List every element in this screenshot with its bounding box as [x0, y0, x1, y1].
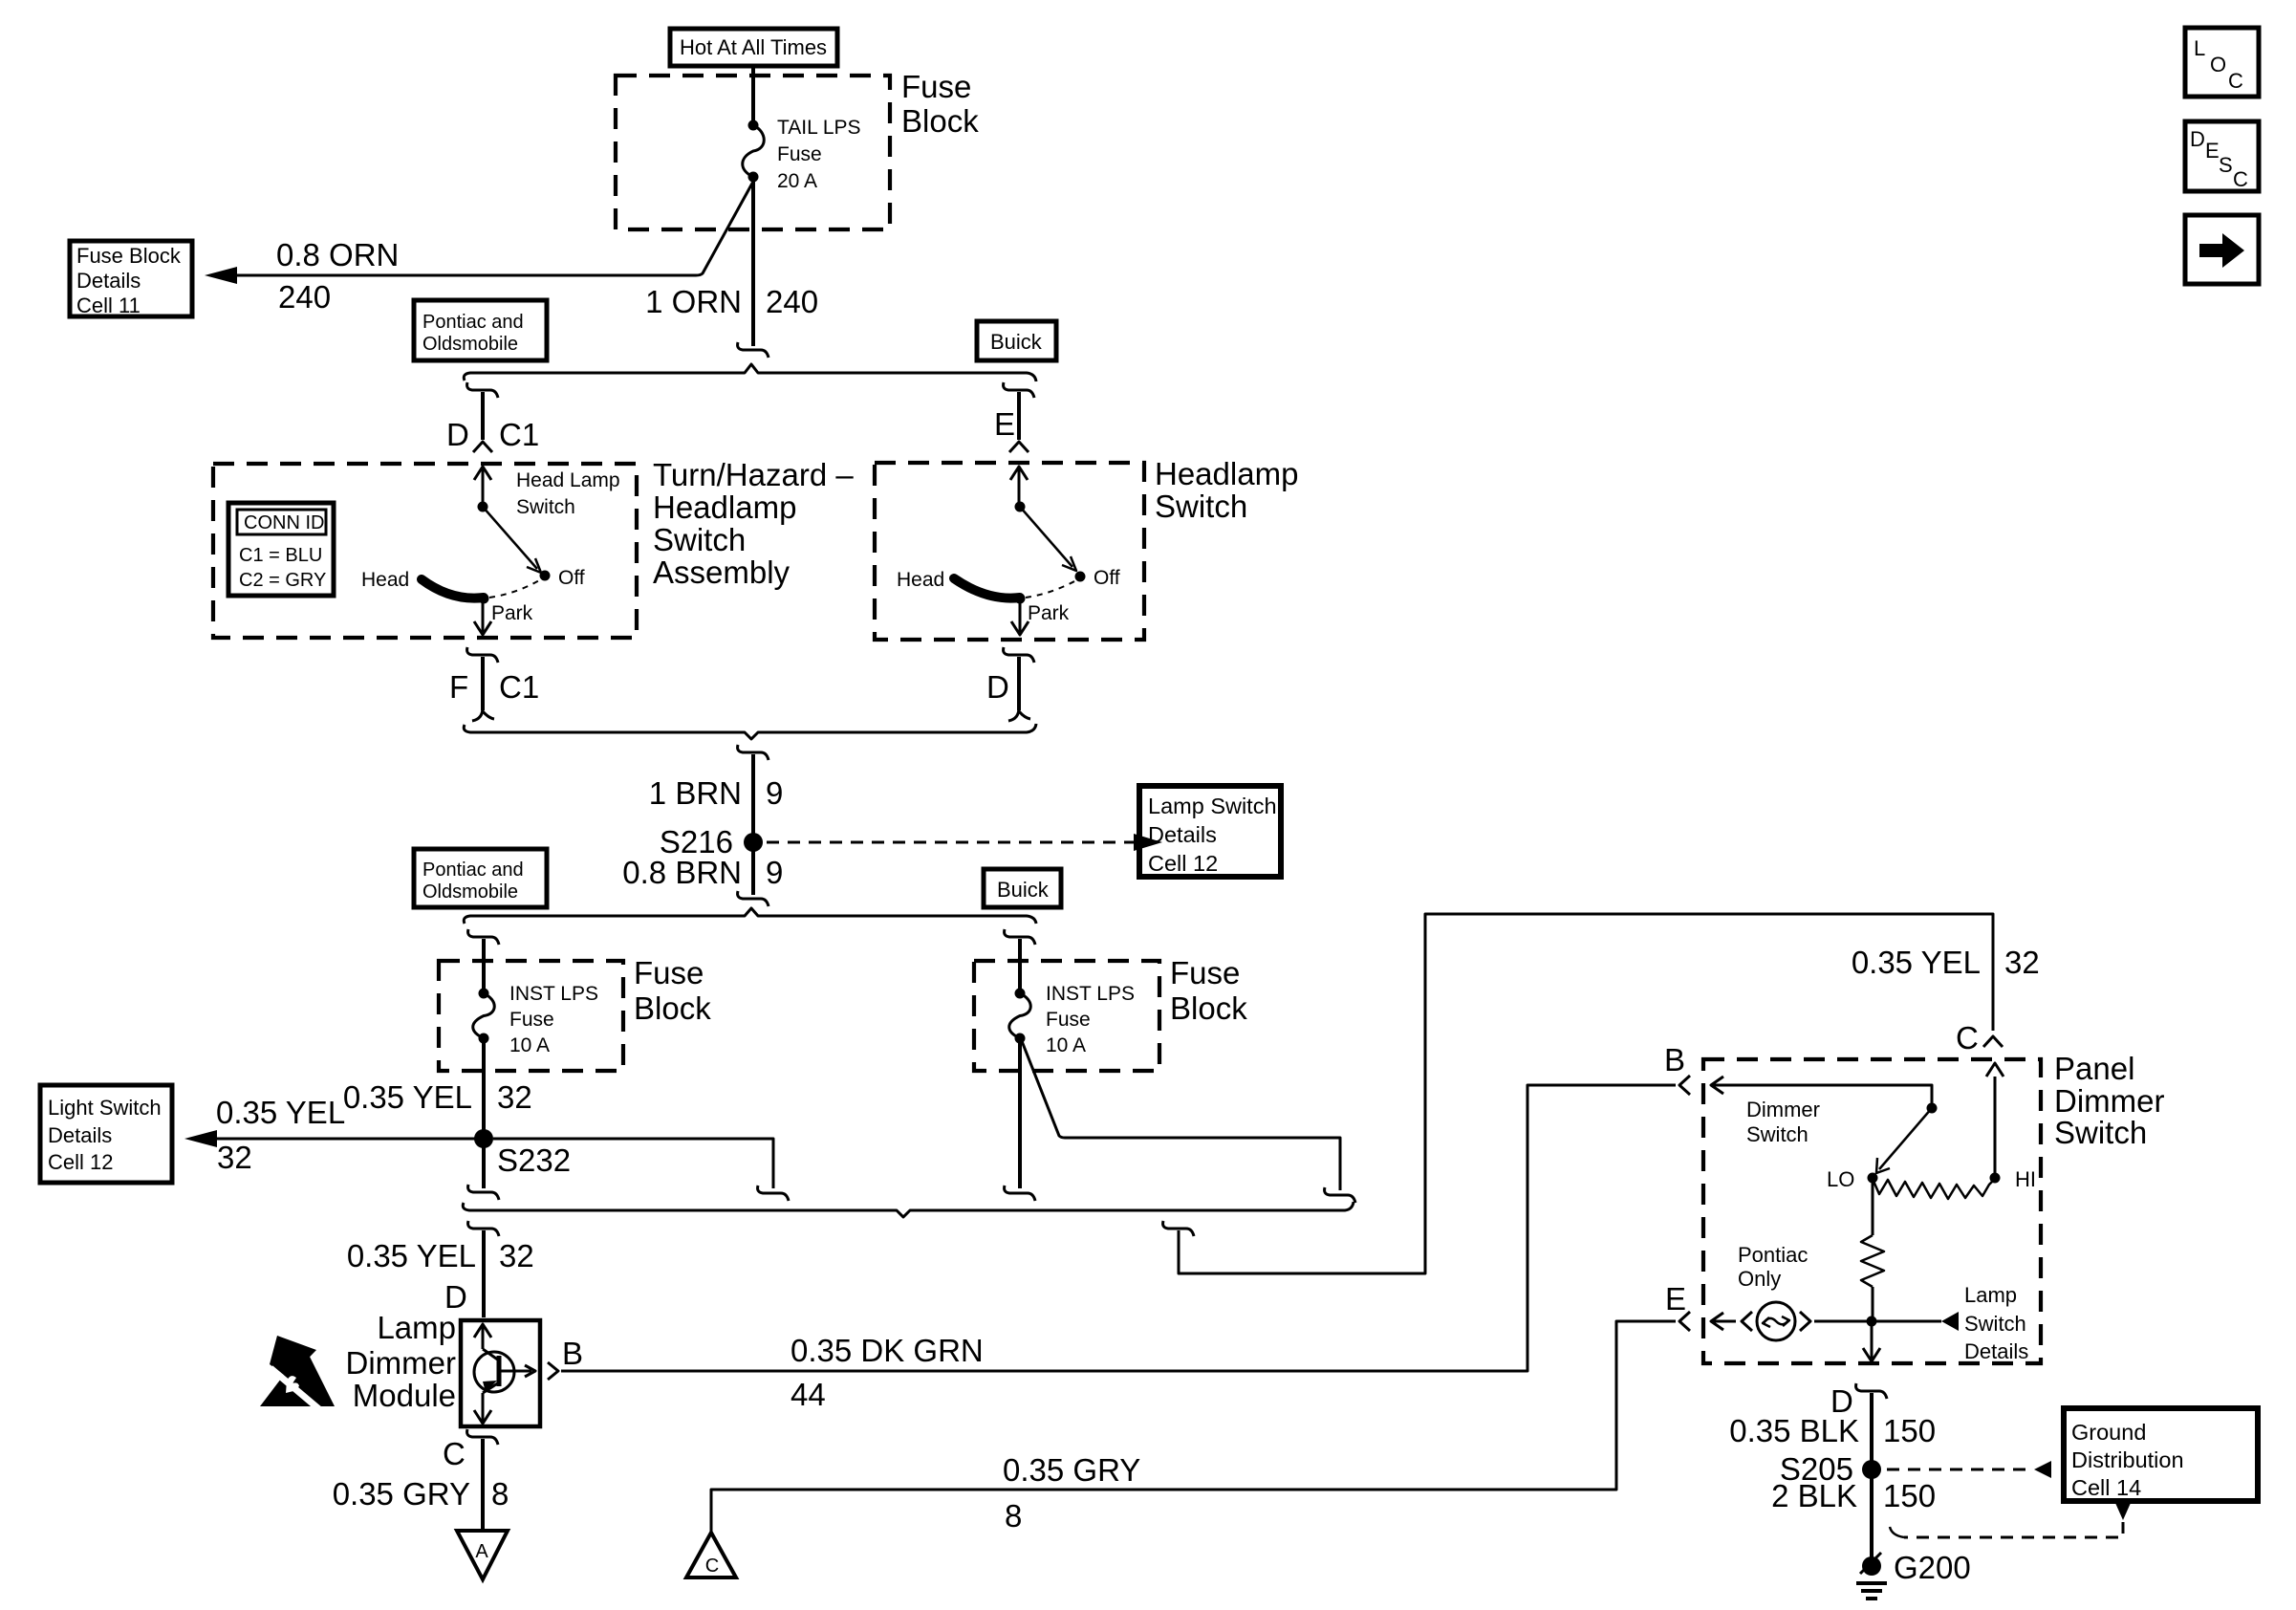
- svg-text:Cell 12: Cell 12: [48, 1150, 113, 1174]
- svg-text:0.8 ORN: 0.8 ORN: [276, 237, 399, 272]
- label 0.35 BLK / 150: [1729, 1413, 1936, 1448]
- connector D C1 female: [467, 382, 498, 398]
- svg-text:Switch: Switch: [653, 522, 746, 557]
- HI feed arrow up: [1994, 1077, 1997, 1178]
- svg-text:0.35 GRY: 0.35 GRY: [333, 1476, 470, 1512]
- svg-text:8: 8: [1005, 1498, 1022, 1534]
- svg-text:C: C: [2228, 69, 2243, 93]
- ground G200: [1856, 1553, 1887, 1599]
- svg-text:Details: Details: [1964, 1339, 2028, 1363]
- wire E to ground ref C: [711, 1321, 1676, 1532]
- switch 1 output arrow: [482, 602, 485, 632]
- label 0.35 GRY / 8 module: [333, 1476, 509, 1512]
- svg-text:Block: Block: [634, 990, 711, 1026]
- svg-text:Assembly: Assembly: [653, 555, 791, 590]
- svg-text:32: 32: [499, 1238, 534, 1273]
- label 1 ORN / 240: [645, 284, 818, 319]
- switch 1 pivot: [478, 502, 488, 512]
- label F / C1: [449, 669, 539, 705]
- svg-text:Hot At All Times: Hot At All Times: [680, 35, 827, 59]
- lamp connector break right: [1800, 1312, 1810, 1331]
- wire module C down: [481, 1439, 485, 1529]
- svg-text:32: 32: [217, 1140, 252, 1175]
- wire S232 right branch: [493, 1139, 773, 1188]
- connector E male pin panel: [1679, 1312, 1690, 1331]
- label 0.8 BRN / 9: [622, 855, 783, 890]
- connector D panel output: [1856, 1383, 1887, 1399]
- harness bus 3: [464, 908, 1036, 924]
- resistor R2 vertical: [1861, 1235, 1884, 1287]
- connector D right end hook: [1008, 707, 1030, 721]
- svg-text:Panel: Panel: [2054, 1051, 2134, 1086]
- Pontiac and Oldsmobile box 1: [414, 300, 547, 360]
- switch 2 Off contact: [1075, 572, 1086, 582]
- arrowhead at panel box bottom: [1863, 1348, 1880, 1361]
- wire 0.8 ORN to fuse block details: [235, 180, 754, 275]
- label Fuse Block right: [1170, 955, 1247, 1026]
- wire to module D: [482, 1230, 486, 1317]
- connector F C1 female: [467, 647, 498, 663]
- module C arrowhead: [474, 1410, 491, 1424]
- Lamp Dimmer Module box: [461, 1320, 540, 1426]
- arrowhead to Fuse Block Details: [205, 267, 237, 284]
- wire into fuse 3: [1018, 939, 1022, 990]
- svg-text:0.35 BLK: 0.35 BLK: [1729, 1413, 1859, 1448]
- dimmer switch pivot: [1927, 1103, 1938, 1114]
- switch 2 Park contact: [1015, 594, 1026, 604]
- harness bus 1: [464, 364, 1036, 381]
- label Dimmer Switch: [1746, 1098, 1820, 1146]
- connector fuse block 1 output: [738, 342, 769, 358]
- connector fuse2 output end: [468, 1185, 499, 1200]
- wire into fuse 2: [482, 939, 486, 990]
- svg-text:Ground: Ground: [2071, 1420, 2146, 1445]
- label Lamp Switch Details: [1964, 1283, 2028, 1363]
- arrowhead to Lamp Switch Details: [1941, 1312, 1959, 1331]
- svg-text:L: L: [2194, 36, 2205, 60]
- connector into fuse block 3: [1005, 929, 1035, 945]
- svg-text:Headlamp: Headlamp: [653, 490, 796, 525]
- svg-text:C: C: [443, 1436, 466, 1471]
- connector C male pin: [1983, 1036, 2003, 1047]
- LO contact: [1868, 1173, 1878, 1184]
- harness bus 2: [464, 724, 1036, 739]
- dashed arrow S216 to Lamp Switch Details: [767, 841, 1134, 844]
- module output lead C: [482, 1393, 485, 1422]
- svg-text:0.8 BRN: 0.8 BRN: [622, 855, 742, 890]
- switch 2 blade: [1020, 507, 1072, 567]
- svg-text:Head: Head: [361, 569, 409, 591]
- svg-text:Buick: Buick: [997, 878, 1050, 902]
- connector S232 branch end: [758, 1186, 789, 1201]
- connector E female: [1004, 382, 1034, 398]
- svg-text:Cell 12: Cell 12: [1148, 851, 1218, 876]
- connector D C1 male pin: [473, 442, 492, 452]
- svg-text:10 A: 10 A: [509, 1034, 550, 1056]
- connector below S216: [738, 891, 769, 906]
- svg-text:Fuse Block: Fuse Block: [76, 244, 182, 268]
- label Turn/Hazard-Headlamp Switch Assembly: [653, 457, 854, 590]
- connector fuse3 branch end: [1325, 1187, 1355, 1203]
- connector E male pin: [1009, 442, 1029, 452]
- arrowhead E inside: [1711, 1313, 1723, 1330]
- DESC legend box: [2185, 121, 2259, 191]
- Panel Dimmer Switch dashed box: [1703, 1059, 2041, 1363]
- label Pontiac Only: [1738, 1243, 1808, 1291]
- svg-text:Details: Details: [1148, 822, 1217, 847]
- label INST LPS Fuse 10 A right: [1046, 983, 1135, 1056]
- svg-text:F: F: [449, 669, 468, 705]
- svg-text:Headlamp: Headlamp: [1155, 456, 1298, 491]
- svg-text:D: D: [2190, 127, 2205, 151]
- svg-text:C1: C1: [499, 669, 539, 705]
- svg-text:G200: G200: [1894, 1550, 1971, 1585]
- label Lamp Dimmer Module: [346, 1310, 456, 1413]
- Light Switch Details Cell 12 box: [40, 1085, 172, 1183]
- svg-text:C: C: [1956, 1020, 1979, 1055]
- svg-text:E: E: [2205, 139, 2220, 163]
- svg-text:CONN ID: CONN ID: [244, 512, 324, 533]
- label 0.35 GRY / 8 right: [1003, 1452, 1140, 1534]
- connector above S216: [738, 745, 769, 760]
- E inside line with arrow: [1711, 1320, 1736, 1323]
- arrowhead out of switch 1: [474, 621, 491, 635]
- connector D right wire: [1017, 657, 1021, 710]
- arrow legend box: [2185, 215, 2259, 284]
- svg-text:B: B: [562, 1336, 583, 1371]
- label Headlamp Switch: [1155, 456, 1298, 524]
- connector module C output: [467, 1429, 498, 1445]
- svg-text:D: D: [986, 669, 1009, 705]
- arrowhead into switch 1: [474, 467, 491, 480]
- Fuse Block Details Cell 11 box: [70, 241, 192, 317]
- svg-text:B: B: [1664, 1042, 1685, 1077]
- switch 2 pivot: [1015, 502, 1026, 512]
- head lamp switch 1 input arrow: [482, 468, 485, 504]
- arrowhead out of switch 2: [1011, 621, 1029, 635]
- svg-text:Fuse: Fuse: [777, 143, 822, 165]
- svg-text:Distribution: Distribution: [2071, 1447, 2184, 1472]
- svg-text:Park: Park: [491, 602, 533, 624]
- svg-text:Module: Module: [353, 1378, 456, 1413]
- CONN ID table: [228, 503, 334, 596]
- svg-text:LO: LO: [1827, 1167, 1854, 1191]
- fuse block 2 dashed box: [439, 961, 623, 1071]
- ground ref triangle A: [457, 1531, 508, 1579]
- svg-text:TAIL LPS: TAIL LPS: [777, 117, 861, 139]
- svg-text:Details: Details: [48, 1123, 112, 1147]
- arrowhead B inside: [1711, 1077, 1723, 1094]
- fuse block 3 dashed box: [974, 961, 1159, 1071]
- svg-text:9: 9: [766, 855, 783, 890]
- transistor Q1: [474, 1349, 535, 1393]
- svg-text:Pontiac and: Pontiac and: [422, 312, 524, 333]
- svg-text:Switch: Switch: [1155, 489, 1247, 524]
- svg-text:0.35 YEL: 0.35 YEL: [1852, 945, 1981, 980]
- dashed arrow S205 to Ground Distribution: [1887, 1469, 2032, 1471]
- svg-text:0.35 YEL: 0.35 YEL: [343, 1079, 472, 1115]
- label 0.35 DK GRN / 44: [791, 1333, 984, 1412]
- svg-text:E: E: [994, 406, 1015, 442]
- label 0.8 ORN / 240: [276, 237, 399, 315]
- svg-text:O: O: [2210, 53, 2226, 76]
- harness bus 4: [463, 1202, 1354, 1217]
- svg-text:S232: S232: [497, 1142, 571, 1178]
- splice S205: [1862, 1460, 1881, 1479]
- svg-text:C1: C1: [499, 417, 539, 452]
- svg-text:D: D: [446, 417, 469, 452]
- svg-text:Switch: Switch: [2054, 1115, 2147, 1150]
- connector F C1 wire: [481, 657, 485, 710]
- Turn/Hazard-Headlamp Switch Assembly dashed box: [213, 464, 637, 638]
- svg-text:Head: Head: [897, 569, 944, 591]
- svg-text:240: 240: [766, 284, 818, 319]
- HI contact: [1990, 1173, 2001, 1184]
- svg-text:A: A: [475, 1541, 488, 1562]
- svg-text:Light Switch: Light Switch: [48, 1096, 162, 1120]
- junction dot: [1867, 1316, 1877, 1327]
- connector D C1 wire: [481, 392, 485, 440]
- fuse block 1 dashed box: [616, 76, 890, 229]
- Lamp Switch Details Cell 12 box: [1139, 786, 1281, 877]
- svg-text:Switch: Switch: [1746, 1122, 1809, 1146]
- wire fuse 2 to S232: [482, 1038, 486, 1188]
- connector B male pin: [1679, 1076, 1690, 1095]
- svg-text:Fuse: Fuse: [1046, 1009, 1091, 1031]
- switch 2 output arrow: [1019, 602, 1022, 632]
- svg-text:Switch: Switch: [516, 496, 575, 518]
- connector F C1 end hook: [472, 707, 494, 721]
- B inside line with arrow: [1711, 1085, 1932, 1103]
- svg-text:Park: Park: [1028, 602, 1070, 624]
- svg-text:10 A: 10 A: [1046, 1034, 1086, 1056]
- Headlamp Switch dashed box: [875, 463, 1144, 640]
- wire arrow to Light Switch Details: [217, 1138, 476, 1141]
- switch 2 dashed arc park-off: [1026, 580, 1076, 598]
- svg-text:C: C: [2233, 167, 2248, 191]
- labels Head Lamp Switch: [516, 469, 620, 518]
- wire 0.35 DK GRN: [561, 1085, 1676, 1371]
- Buick box 2: [984, 869, 1061, 907]
- junction down arrow: [1871, 1326, 1874, 1359]
- svg-text:Block: Block: [1170, 990, 1247, 1026]
- switch 1 wiper thick arc: [422, 579, 484, 598]
- LOC legend box: [2185, 28, 2259, 97]
- wire LO down: [1872, 1183, 1874, 1235]
- label 0.35 YEL / 32 module: [347, 1238, 534, 1273]
- label Fuse Block (top): [901, 69, 979, 139]
- svg-text:Details: Details: [76, 269, 141, 293]
- svg-text:C: C: [705, 1556, 719, 1577]
- switch 1 dashed arc park-off: [489, 579, 541, 598]
- svg-text:Only: Only: [1738, 1267, 1781, 1291]
- svg-text:Off: Off: [1094, 567, 1120, 589]
- label 0.35 YEL / 32 panel: [1852, 945, 2040, 980]
- svg-text:0.35 GRY: 0.35 GRY: [1003, 1452, 1140, 1488]
- head lamp switch 2 input arrow: [1018, 468, 1021, 504]
- label Panel Dimmer Switch: [2054, 1051, 2164, 1150]
- connector D right female: [1004, 647, 1034, 663]
- connector into fuse block 2: [468, 929, 499, 945]
- svg-text:150: 150: [1883, 1478, 1936, 1513]
- dimmer switch blade: [1879, 1108, 1932, 1169]
- svg-text:1 ORN: 1 ORN: [645, 284, 742, 319]
- svg-text:Lamp Switch: Lamp Switch: [1148, 794, 1277, 818]
- switch 2 wiper thick arc: [954, 578, 1020, 598]
- wire hot-to-fuse: [751, 66, 755, 122]
- svg-text:0.35 YEL: 0.35 YEL: [347, 1238, 476, 1273]
- svg-text:Turn/Hazard –: Turn/Hazard –: [653, 457, 854, 492]
- svg-text:E: E: [1665, 1281, 1686, 1316]
- Pontiac and Oldsmobile box 2: [414, 849, 547, 907]
- connector E wire: [1017, 392, 1021, 440]
- svg-text:Head Lamp: Head Lamp: [516, 469, 620, 491]
- ESD symbol: [260, 1336, 335, 1409]
- label D / C1: [446, 417, 539, 452]
- svg-text:Fuse: Fuse: [901, 69, 971, 104]
- svg-text:44: 44: [791, 1377, 826, 1412]
- Buick box 1: [977, 321, 1056, 360]
- wire fuse 3 diagonal branch: [1022, 1041, 1340, 1190]
- wire lamp to junction: [1814, 1320, 1941, 1323]
- lamp connector break left: [1742, 1312, 1752, 1331]
- wire 1 BRN: [751, 754, 755, 835]
- wire fuse output down: [751, 177, 755, 346]
- svg-text:9: 9: [766, 775, 783, 811]
- svg-text:Fuse: Fuse: [509, 1009, 554, 1031]
- label TAIL LPS Fuse 20 A: [777, 117, 861, 192]
- splice S216: [744, 833, 763, 852]
- ground ref triangle C: [686, 1533, 736, 1577]
- wire bus4 to panel dimmer C: [1179, 914, 1993, 1273]
- svg-text:Cell 14: Cell 14: [2071, 1475, 2141, 1500]
- module D arrowhead: [474, 1324, 491, 1338]
- svg-text:150: 150: [1883, 1413, 1936, 1448]
- wire R2 to junction: [1872, 1287, 1874, 1321]
- svg-text:2 BLK: 2 BLK: [1771, 1478, 1857, 1513]
- connector bus4 to panel branch: [1163, 1221, 1194, 1236]
- splice S232: [474, 1129, 493, 1148]
- svg-text:Oldsmobile: Oldsmobile: [422, 881, 518, 903]
- svg-text:HI: HI: [2015, 1167, 2036, 1191]
- svg-text:Off: Off: [558, 567, 585, 589]
- svg-text:INST LPS: INST LPS: [1046, 983, 1135, 1005]
- svg-text:32: 32: [2004, 945, 2040, 980]
- svg-text:Fuse: Fuse: [634, 955, 704, 990]
- svg-text:INST LPS: INST LPS: [509, 983, 598, 1005]
- svg-text:8: 8: [491, 1476, 509, 1512]
- dashed ground link: [1890, 1503, 2131, 1537]
- Ground Distribution Cell 14 box: [2064, 1408, 2258, 1501]
- svg-text:C1 = BLU: C1 = BLU: [239, 545, 322, 566]
- arrowhead into switch 2: [1010, 467, 1028, 480]
- wire fuse 3 output straight: [1018, 1038, 1022, 1188]
- svg-text:Fuse: Fuse: [1170, 955, 1240, 990]
- fuse INST LPS 10A left: [479, 989, 489, 999]
- wire 0.8 BRN: [751, 850, 755, 895]
- svg-text:Cell 11: Cell 11: [76, 294, 141, 317]
- module input lead: [482, 1326, 485, 1349]
- arrowhead up at box top: [1986, 1063, 2004, 1077]
- Hot At All Times box: [670, 29, 837, 66]
- label 0.35 YEL / 32 arrow: [216, 1095, 345, 1175]
- svg-text:C2 = GRY: C2 = GRY: [239, 570, 326, 591]
- switch 1 blade: [483, 507, 537, 569]
- svg-text:S: S: [2219, 153, 2233, 177]
- svg-text:Lamp: Lamp: [1964, 1283, 2017, 1307]
- svg-text:Block: Block: [901, 103, 979, 139]
- svg-text:Switch: Switch: [1964, 1312, 2026, 1336]
- svg-text:Dimmer: Dimmer: [346, 1345, 456, 1381]
- rheostat R1: [1873, 1179, 1995, 1199]
- label INST LPS Fuse 10 A left: [509, 983, 598, 1056]
- module B male pin: [548, 1362, 558, 1380]
- switch 1 Off contact: [540, 571, 551, 581]
- svg-text:Pontiac and: Pontiac and: [422, 859, 524, 881]
- svg-text:0.35 DK GRN: 0.35 DK GRN: [791, 1333, 984, 1368]
- connector fuse3 output end: [1005, 1186, 1035, 1201]
- svg-text:240: 240: [278, 279, 331, 315]
- switch 1 Park contact: [479, 594, 489, 604]
- svg-text:Pontiac: Pontiac: [1738, 1243, 1808, 1267]
- svg-text:1 BRN: 1 BRN: [649, 775, 742, 811]
- label Fuse Block left: [634, 955, 711, 1026]
- svg-text:Dimmer: Dimmer: [2054, 1083, 2164, 1119]
- svg-text:0.35 YEL: 0.35 YEL: [216, 1095, 345, 1130]
- svg-text:Dimmer: Dimmer: [1746, 1098, 1820, 1121]
- label 0.35 YEL / 32 upper: [343, 1079, 532, 1115]
- svg-text:32: 32: [497, 1079, 532, 1115]
- svg-text:Buick: Buick: [990, 330, 1043, 354]
- connector module D input: [468, 1221, 499, 1236]
- label 1 BRN / 9: [649, 775, 784, 811]
- svg-text:20 A: 20 A: [777, 170, 817, 192]
- fuse TAIL LPS 20A: [748, 120, 759, 131]
- lamp Pontiac Only: [1757, 1302, 1795, 1340]
- fuse INST LPS 10A right: [1015, 989, 1026, 999]
- svg-text:Lamp: Lamp: [377, 1310, 456, 1345]
- wire 0.35 BLK / 2 BLK: [1870, 1393, 1874, 1558]
- label 2 BLK / 150: [1771, 1478, 1936, 1513]
- svg-text:Oldsmobile: Oldsmobile: [422, 334, 518, 355]
